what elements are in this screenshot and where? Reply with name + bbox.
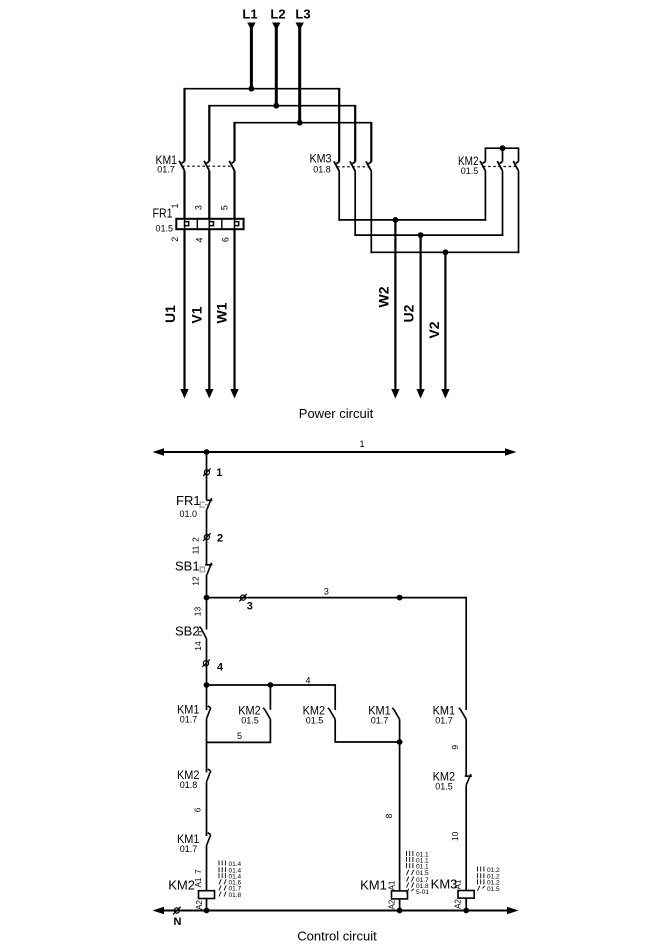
- wire U2: [420, 235, 422, 390]
- svg-text:6: 6: [220, 237, 230, 242]
- coil KM2: [199, 891, 215, 899]
- contactor KM3 pole3 contact: [366, 161, 371, 171]
- coil KM3: [458, 891, 474, 899]
- svg-text:KM3: KM3: [310, 152, 332, 166]
- KM2 cross-ref row 5: [219, 885, 242, 892]
- wire link A (KM3 pole1 - KM2 pole1): [338, 219, 486, 221]
- svg-text:L1: L1: [242, 7, 257, 22]
- thermal relay FR1 box: [176, 219, 243, 229]
- contactor KM1 linkage dashed: [182, 165, 232, 167]
- svg-text:9: 9: [450, 745, 460, 750]
- contact KM1 colE (NO): [459, 708, 466, 719]
- contact KM1 colD (NO): [392, 708, 399, 719]
- svg-text:A1: A1: [388, 880, 397, 890]
- KM3 cross-ref row 4: [478, 886, 501, 893]
- svg-text:U2: U2: [401, 304, 417, 322]
- svg-text:01.7: 01.7: [180, 844, 198, 854]
- junction dot L1 bus: [249, 86, 255, 92]
- wire drop to KM1 pole2: [208, 105, 210, 161]
- KM1 cross-ref row 6: [407, 883, 430, 890]
- wire column D coil-N: [399, 899, 401, 911]
- contactor KM2 pole2 contact: [497, 161, 502, 171]
- wire column A FR1-SB1: [206, 509, 208, 564]
- KM2 cross-ref row 3: [219, 873, 242, 880]
- contactor KM2 linkage dashed: [483, 166, 516, 168]
- wire column E coil-N: [465, 898, 467, 910]
- wire drop to KM1 pole1: [183, 88, 185, 161]
- KM1 cross-ref row 4: [407, 870, 430, 877]
- junction dot L2 bus: [273, 103, 279, 109]
- svg-text:A1: A1: [454, 879, 463, 889]
- svg-text:4: 4: [217, 662, 224, 674]
- svg-text:1: 1: [216, 467, 222, 479]
- arrow L2 incoming: [272, 23, 280, 31]
- wire bus line L1 horizontal: [185, 88, 340, 90]
- wire column A row3-coil: [206, 846, 208, 891]
- wire KM2 pole3 down: [518, 171, 520, 253]
- FR1 box divider 1: [196, 219, 198, 229]
- svg-text:Power circuit: Power circuit: [299, 406, 374, 421]
- wire column A SB1-node3: [206, 575, 208, 630]
- thermal contact FR1 (NC): [206, 498, 212, 509]
- junction dot colD link: [397, 739, 403, 745]
- pushbutton SB2 (NO start): [199, 627, 206, 639]
- svg-text:L3: L3: [295, 7, 310, 22]
- wire KM3 pole3 down: [370, 171, 372, 253]
- wire line 1 (phase rail): [160, 451, 509, 453]
- junction dot line4 / column A: [204, 682, 210, 688]
- pushbutton SB1 (NC stop): [205, 563, 212, 575]
- node marker wire 2: [203, 533, 211, 541]
- junction dot node 3: [204, 595, 210, 601]
- wire line 3 horizontal: [207, 598, 467, 710]
- FR1 box divider 2: [221, 219, 223, 229]
- SB1 actuator: [200, 567, 204, 572]
- wire link B (KM3 pole2 - KM2 pole2): [354, 234, 503, 236]
- wire column A SB2-line4: [206, 639, 208, 710]
- FR1 heater pole1: [185, 219, 189, 229]
- node marker wire 4: [202, 659, 210, 667]
- svg-text:01.8: 01.8: [180, 780, 198, 790]
- FR1 thermal actuator: [200, 502, 208, 507]
- contactor KM2 pole3 contact: [513, 161, 518, 171]
- wire line N (neutral rail): [160, 910, 511, 912]
- wire U1: [183, 229, 185, 390]
- arrow L3 incoming: [296, 23, 304, 31]
- svg-text:SB2: SB2: [175, 624, 200, 639]
- svg-text:01.0: 01.0: [180, 509, 198, 519]
- svg-text:3: 3: [247, 601, 253, 613]
- KM1 cross-ref row 1: [407, 851, 430, 858]
- svg-text:10: 10: [450, 831, 460, 841]
- svg-text:01.5: 01.5: [306, 716, 324, 726]
- wire column A coil-N: [206, 899, 208, 911]
- arrow U1: [180, 389, 188, 399]
- junction dot N / column A: [204, 908, 210, 914]
- wire drop to KM3 pole1: [338, 88, 340, 162]
- coil KM1: [392, 891, 408, 899]
- junction dot N / column E: [463, 908, 469, 914]
- svg-text:01.5: 01.5: [241, 716, 259, 726]
- KM2 cross-ref row 4: [219, 879, 242, 886]
- svg-text:5: 5: [220, 205, 230, 210]
- svg-text:W1: W1: [214, 302, 230, 323]
- junction dot L3 bus: [297, 120, 303, 126]
- contactor KM3 linkage dashed: [337, 166, 369, 168]
- KM1 cross-ref row 5: [407, 877, 430, 884]
- wire drop to KM3 pole2: [354, 105, 356, 162]
- node marker wire 3: [239, 594, 247, 602]
- contactor KM1 pole3 contact: [229, 161, 234, 171]
- contact KM1 colA (NO): [207, 706, 211, 719]
- junction dot V2: [443, 249, 449, 255]
- svg-text:3: 3: [193, 205, 203, 210]
- svg-text:FR1: FR1: [176, 493, 201, 508]
- svg-text:6: 6: [193, 807, 203, 812]
- contactor KM1 pole1 contact: [179, 161, 184, 171]
- wire L1 vertical: [250, 27, 253, 89]
- wire KM1 pole3 to FR1: [233, 171, 235, 219]
- svg-text:01.7: 01.7: [180, 715, 198, 725]
- svg-text:V1: V1: [189, 306, 205, 323]
- SB2 actuator: [199, 632, 203, 636]
- svg-text:01.5: 01.5: [435, 782, 453, 792]
- KM1 cross-ref row 7: [407, 889, 430, 896]
- svg-text:A2: A2: [195, 900, 204, 910]
- arrow U2: [416, 389, 424, 399]
- svg-text:3: 3: [324, 587, 329, 597]
- svg-text:1: 1: [170, 203, 180, 208]
- svg-text:U1: U1: [162, 305, 178, 323]
- wire KM2 pole1 down: [484, 171, 486, 221]
- wire V1: [208, 229, 210, 390]
- svg-text:12: 12: [191, 576, 201, 586]
- wire colC to colD link: [335, 719, 399, 742]
- svg-text:KM1: KM1: [360, 878, 387, 893]
- svg-text:7: 7: [194, 869, 203, 874]
- KM1 cross-ref row 3: [407, 863, 430, 870]
- wire column E row2-coil: [465, 785, 467, 890]
- svg-text:A2: A2: [388, 899, 397, 909]
- arrow L1 incoming: [247, 23, 255, 31]
- wire line 4 horizontal: [207, 685, 336, 710]
- wire V2: [444, 252, 446, 390]
- wire column D row1-coil: [399, 719, 401, 891]
- svg-text:14: 14: [193, 641, 203, 651]
- KM2 cross-ref row 1: [219, 861, 242, 868]
- arrow lineN left: [153, 907, 165, 914]
- junction dot KM2 bridge: [500, 145, 506, 151]
- junction dot rail / column A: [204, 449, 210, 455]
- wire drop to KM3 pole3: [370, 122, 372, 162]
- junction dot N / column D: [397, 908, 403, 914]
- svg-text:01.7: 01.7: [435, 716, 453, 726]
- wire column A row1-row2: [206, 719, 208, 773]
- contact KM2 colB (NO): [263, 708, 270, 719]
- junction dot U2: [418, 232, 424, 238]
- svg-text:2: 2: [190, 537, 200, 542]
- wire column E row1-row2: [465, 719, 467, 775]
- contactor KM3 pole2 contact: [350, 161, 355, 171]
- wire bus line L2 horizontal: [209, 105, 355, 107]
- contact KM2 colA (NO): [207, 769, 211, 782]
- contact KM2 colC (NO): [328, 708, 335, 719]
- svg-text:KM2: KM2: [168, 878, 195, 893]
- wire link C (KM3 pole3 - KM2 pole3): [371, 251, 520, 253]
- svg-text:V2: V2: [426, 321, 442, 338]
- KM3 cross-ref row 1: [478, 867, 501, 874]
- arrow line1 right: [505, 448, 517, 455]
- wire W2: [394, 220, 396, 390]
- svg-text:01.7: 01.7: [371, 716, 389, 726]
- arrow lineN right: [507, 907, 519, 914]
- svg-text:01.8: 01.8: [229, 892, 242, 899]
- svg-text:Control circuit: Control circuit: [297, 929, 377, 944]
- contact KM2 colE (NC): [465, 774, 472, 785]
- svg-text:01.5: 01.5: [461, 166, 479, 176]
- svg-text:11: 11: [191, 545, 201, 554]
- svg-text:A2: A2: [454, 899, 463, 909]
- svg-text:W2: W2: [376, 286, 392, 307]
- wire KM3 pole2 down: [354, 171, 356, 236]
- svg-text:A1: A1: [194, 877, 203, 887]
- KM3 cross-ref row 2: [478, 873, 501, 880]
- KM2 star bridge middle stub: [502, 148, 504, 161]
- svg-text:1: 1: [359, 439, 364, 449]
- svg-text:01.5: 01.5: [487, 886, 500, 893]
- svg-text:01.5: 01.5: [156, 224, 174, 234]
- arrow W2: [391, 389, 399, 399]
- contactor KM2 pole1 contact: [480, 161, 485, 171]
- wire KM2 pole2 down: [502, 171, 504, 236]
- svg-text:2: 2: [217, 533, 223, 545]
- svg-text:N: N: [174, 916, 182, 928]
- svg-text:2: 2: [170, 237, 180, 242]
- contactor KM3 pole1 contact: [334, 161, 339, 171]
- arrow V2: [441, 389, 449, 399]
- node marker wire N: [173, 907, 181, 915]
- KM2 star bridge: [485, 148, 518, 161]
- svg-text:4: 4: [305, 675, 310, 685]
- KM2 cross-ref row 2: [219, 867, 242, 874]
- svg-text:5-01: 5-01: [416, 889, 429, 896]
- arrow line1 left: [153, 448, 165, 455]
- FR1 heater pole3: [235, 219, 239, 229]
- arrow V1: [205, 389, 213, 399]
- wire L3 vertical: [298, 27, 301, 123]
- arrow W1: [230, 389, 238, 399]
- contact KM1 colA row3 (NO): [207, 833, 211, 846]
- wire KM1 pole2 to FR1: [208, 171, 210, 219]
- KM3 cross-ref row 3: [478, 879, 501, 886]
- node marker wire 1: [203, 469, 211, 477]
- wire bus line L3 horizontal: [235, 122, 372, 124]
- KM1 cross-ref row 2: [407, 857, 430, 864]
- contactor KM1 pole2 contact: [204, 161, 209, 171]
- wire column A upper: [206, 452, 208, 500]
- svg-text:5: 5: [237, 731, 242, 741]
- wire column B upper: [269, 685, 271, 710]
- KM2 cross-ref row 6: [219, 892, 242, 899]
- svg-text:8: 8: [384, 813, 394, 818]
- FR1 heater pole2: [209, 219, 213, 229]
- wire column A row2-row3: [206, 782, 208, 836]
- wire drop to KM1 pole3: [233, 122, 235, 161]
- wire L2 vertical: [275, 27, 278, 106]
- wire line 5 (colA-colB): [207, 719, 271, 742]
- svg-text:L2: L2: [270, 7, 285, 22]
- svg-text:SB1: SB1: [175, 559, 200, 574]
- wire KM1 pole1 to FR1: [183, 171, 185, 219]
- svg-text:01.7: 01.7: [157, 165, 175, 175]
- junction dot W2: [393, 217, 399, 223]
- svg-text:01.8: 01.8: [313, 165, 331, 175]
- junction dot line3 / column D: [397, 595, 403, 601]
- svg-text:4: 4: [194, 237, 204, 242]
- junction dot line4 / column B: [268, 682, 274, 688]
- wire W1: [233, 229, 235, 390]
- svg-text:13: 13: [192, 607, 202, 617]
- wire KM3 pole1 down: [338, 171, 340, 221]
